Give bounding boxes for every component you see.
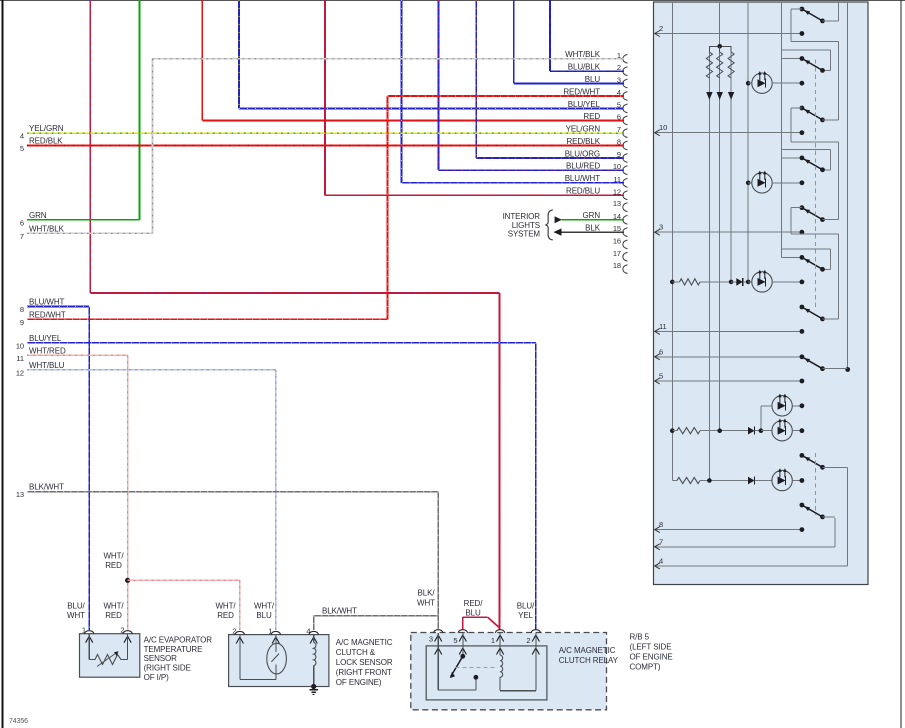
svg-text:LOCK SENSOR: LOCK SENSOR	[336, 658, 393, 667]
svg-text:7: 7	[659, 537, 663, 546]
svg-text:WHT/: WHT/	[254, 602, 275, 611]
svg-text:RED: RED	[105, 611, 122, 620]
svg-text:WHT: WHT	[417, 599, 435, 608]
svg-text:1: 1	[268, 626, 272, 635]
svg-text:5: 5	[659, 372, 663, 381]
svg-text:2: 2	[120, 626, 124, 635]
svg-text:SENSOR: SENSOR	[144, 654, 178, 663]
svg-text:RED/: RED/	[464, 599, 484, 608]
svg-text:BLU/YEL: BLU/YEL	[568, 100, 601, 109]
svg-text:INTERIOR: INTERIOR	[503, 212, 541, 221]
svg-text:OF ENGINE: OF ENGINE	[630, 652, 673, 661]
svg-text:BLU/YEL: BLU/YEL	[29, 334, 62, 343]
svg-text:2: 2	[659, 24, 663, 33]
svg-text:OF ENGINE): OF ENGINE)	[336, 678, 382, 687]
svg-text:RED/BLU: RED/BLU	[566, 187, 600, 196]
svg-text:5: 5	[20, 144, 24, 153]
svg-text:A/C EVAPORATOR: A/C EVAPORATOR	[144, 636, 213, 645]
svg-text:8: 8	[20, 305, 24, 314]
svg-text:LIGHTS: LIGHTS	[512, 221, 540, 230]
svg-text:BLU: BLU	[585, 75, 601, 84]
svg-text:CLUTCH &: CLUTCH &	[336, 648, 376, 657]
svg-text:16: 16	[613, 236, 621, 245]
svg-text:10: 10	[659, 123, 667, 132]
svg-text:6: 6	[659, 347, 663, 356]
svg-text:2: 2	[232, 626, 236, 635]
svg-text:RED/WHT: RED/WHT	[563, 87, 600, 96]
svg-text:10: 10	[16, 341, 24, 350]
svg-text:RED: RED	[105, 561, 122, 570]
svg-text:11: 11	[659, 322, 667, 331]
svg-text:R/B 5: R/B 5	[630, 632, 650, 641]
svg-text:BLU/WHT: BLU/WHT	[565, 174, 601, 183]
svg-text:RED: RED	[217, 611, 234, 620]
svg-text:WHT/: WHT/	[103, 552, 124, 561]
svg-text:7: 7	[20, 232, 24, 241]
svg-text:A/C MAGNETIC: A/C MAGNETIC	[559, 646, 616, 655]
svg-text:TEMPERATURE: TEMPERATURE	[144, 645, 203, 654]
svg-text:WHT/BLK: WHT/BLK	[29, 224, 65, 233]
svg-text:5: 5	[453, 636, 457, 645]
svg-text:3: 3	[429, 635, 433, 644]
svg-text:9: 9	[20, 318, 24, 327]
svg-text:WHT: WHT	[67, 611, 85, 620]
svg-text:13: 13	[16, 490, 24, 499]
svg-text:74356: 74356	[9, 718, 28, 725]
svg-text:SYSTEM: SYSTEM	[508, 230, 541, 239]
svg-text:BLU: BLU	[465, 609, 481, 618]
svg-text:4: 4	[306, 626, 310, 635]
svg-text:(LEFT SIDE: (LEFT SIDE	[630, 642, 672, 651]
svg-text:RED/BLK: RED/BLK	[29, 137, 63, 146]
svg-text:11: 11	[16, 354, 24, 363]
svg-text:BLU/: BLU/	[517, 602, 535, 611]
svg-text:2: 2	[526, 636, 530, 645]
svg-text:BLU/BLK: BLU/BLK	[568, 63, 601, 72]
svg-text:COMPT): COMPT)	[630, 662, 661, 671]
svg-text:YEL/GRN: YEL/GRN	[566, 125, 601, 134]
svg-text:12: 12	[16, 368, 24, 377]
svg-text:6: 6	[20, 218, 24, 227]
svg-text:RED/WHT: RED/WHT	[29, 310, 66, 319]
svg-text:WHT/BLU: WHT/BLU	[29, 361, 65, 370]
svg-text:BLK/WHT: BLK/WHT	[322, 607, 357, 616]
svg-text:17: 17	[613, 249, 621, 258]
svg-text:YEL: YEL	[518, 611, 533, 620]
svg-text:3: 3	[659, 223, 663, 232]
svg-text:(RIGHT SIDE: (RIGHT SIDE	[144, 664, 191, 673]
svg-text:WHT/BLK: WHT/BLK	[565, 50, 601, 59]
svg-text:4: 4	[659, 556, 663, 565]
svg-text:BLK: BLK	[585, 224, 601, 233]
svg-text:BLK/WHT: BLK/WHT	[29, 483, 64, 492]
svg-text:BLU/WHT: BLU/WHT	[29, 298, 65, 307]
svg-text:WHT/: WHT/	[103, 602, 124, 611]
svg-text:CLUTCH RELAY: CLUTCH RELAY	[559, 656, 619, 665]
svg-text:BLK/: BLK/	[418, 589, 436, 598]
svg-text:BLU/: BLU/	[67, 602, 85, 611]
svg-text:8: 8	[659, 520, 663, 529]
svg-text:4: 4	[20, 132, 24, 141]
svg-text:BLU: BLU	[256, 611, 272, 620]
svg-text:RED: RED	[583, 112, 600, 121]
svg-text:RED/BLK: RED/BLK	[566, 137, 600, 146]
svg-text:GRN: GRN	[583, 211, 601, 220]
svg-text:WHT/RED: WHT/RED	[29, 346, 66, 355]
svg-text:YEL/GRN: YEL/GRN	[29, 124, 64, 133]
svg-text:A/C MAGNETIC: A/C MAGNETIC	[336, 638, 393, 647]
svg-text:WHT/: WHT/	[215, 602, 236, 611]
svg-text:OF I/P): OF I/P)	[144, 673, 170, 682]
svg-text:BLU/ORG: BLU/ORG	[565, 149, 600, 158]
svg-text:BLU/RED: BLU/RED	[566, 162, 600, 171]
svg-text:13: 13	[613, 199, 621, 208]
svg-text:18: 18	[613, 261, 621, 270]
svg-text:GRN: GRN	[29, 211, 47, 220]
svg-text:(RIGHT FRONT: (RIGHT FRONT	[336, 668, 392, 677]
svg-text:1: 1	[491, 636, 495, 645]
svg-text:1: 1	[82, 626, 86, 635]
